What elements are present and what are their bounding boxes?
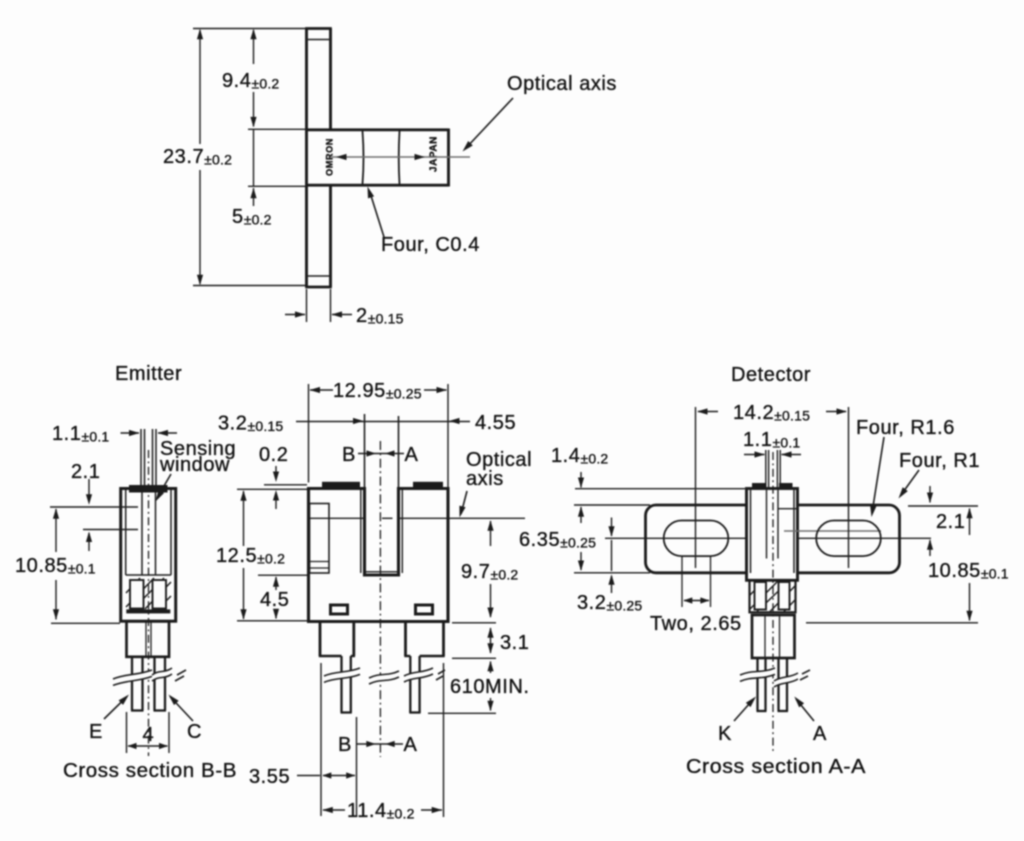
hole centre vertical line (right) (848, 407, 850, 568)
svg-text:9.7±0.2: 9.7±0.2 (461, 561, 518, 583)
svg-text:Four, C0.4: Four, C0.4 (381, 234, 480, 256)
svg-text:2.1: 2.1 (936, 511, 965, 533)
svg-text:Emitter: Emitter (115, 363, 182, 385)
svg-text:3.2±0.15: 3.2±0.15 (218, 413, 283, 435)
svg-text:3.55: 3.55 (249, 766, 290, 788)
hole centre vertical line (left) (695, 407, 697, 568)
svg-text:3.2±0.25: 3.2±0.25 (577, 592, 642, 614)
front view: two slot-shaped holes near bottom (331, 605, 433, 614)
svg-text:Cross section A-A: Cross section A-A (686, 756, 866, 778)
svg-text:23.7±0.2: 23.7±0.2 (163, 146, 232, 168)
svg-text:B: B (338, 734, 352, 756)
dimension 3.2±0.15 and 4.55 (slot position) (218, 412, 516, 435)
label C with leader (169, 695, 203, 744)
svg-text:A: A (813, 723, 827, 745)
emitter centre line (dash-dot) (148, 450, 150, 756)
dimension 2±0.15 (plate thickness) (285, 289, 404, 327)
right mounting prong (404, 622, 444, 656)
left mounting prong (319, 622, 355, 656)
front view: main body outline with slot (309, 482, 449, 622)
svg-text:2.1: 2.1 (71, 461, 100, 483)
dimension 3.1 (prong height) (452, 627, 529, 658)
front view lead break marks (324, 668, 445, 684)
svg-text:11.4±0.2: 11.4±0.2 (347, 800, 415, 822)
hole centre line (horizontal, through both holes) (605, 537, 931, 539)
svg-text:5±0.2: 5±0.2 (232, 206, 272, 228)
svg-text:4.55: 4.55 (475, 412, 516, 434)
optical axis line through housing (grey) (330, 154, 470, 160)
dimension 1.1±0.1 (detector window) (743, 429, 801, 458)
detector lead K (left pin) (757, 658, 767, 711)
svg-text:4.5: 4.5 (260, 589, 289, 611)
svg-text:14.2±0.15: 14.2±0.15 (733, 402, 810, 424)
svg-text:6.35±0.25: 6.35±0.25 (519, 529, 596, 551)
svg-text:Four, R1.6: Four, R1.6 (856, 417, 955, 439)
svg-text:axis: axis (466, 468, 504, 490)
side view: mounting plate (vertical bar) (305, 29, 332, 288)
svg-text:window: window (159, 454, 230, 476)
svg-text:Cross section B-B: Cross section B-B (63, 760, 237, 782)
front view lead A (right pin) (409, 656, 420, 713)
section labels B and A (top) with arrows (342, 414, 419, 488)
dimension 1.1±0.1 (emitter window width) (52, 423, 177, 445)
svg-text:3.1: 3.1 (500, 632, 529, 654)
svg-text:4: 4 (143, 724, 155, 746)
label: Four, C0.4 with leader arrow (368, 187, 480, 257)
grey optical axis reference line (784, 530, 881, 532)
side view: sensor housing protrusion (306, 129, 449, 187)
emitter body outline (121, 485, 176, 621)
emitter lead E (left pin) (131, 657, 144, 711)
left oblong mounting hole (664, 521, 729, 557)
svg-text:JAPAN: JAPAN (429, 136, 440, 172)
svg-text:1.4±0.2: 1.4±0.2 (551, 445, 608, 467)
dimension 2.1 (emitter optical axis offset) (71, 461, 100, 551)
detector body (vertical, in front of plate) (747, 483, 799, 580)
dimension 9.4±0.2 (222, 29, 306, 130)
dimension 14.2±0.15 (hole spacing) (697, 402, 847, 424)
svg-text:9.4±0.2: 9.4±0.2 (222, 70, 279, 92)
svg-text:Four, R1: Four, R1 (899, 450, 980, 472)
svg-text:E: E (89, 721, 103, 743)
dimension 10.85±0.1 (detector height) (806, 506, 1009, 623)
label: Four, R1.6 with leader (856, 417, 955, 517)
detector lead break marks (740, 668, 810, 687)
section labels B and A (bottom) with arrows (338, 734, 418, 756)
label: Optical axis (top) with leader arrow (463, 73, 617, 152)
dimension 12.5±0.2 (body height) (216, 489, 307, 621)
dimension 3.55 (249, 663, 357, 816)
emitter base block (127, 621, 170, 657)
emitter lead wires above body (141, 429, 156, 488)
svg-text:0.2: 0.2 (259, 444, 288, 466)
label A with leader (794, 697, 827, 746)
dimension 9.7±0.2 (452, 520, 518, 623)
label K with leader (718, 697, 756, 746)
front view: emitter element seen inside body (310, 504, 330, 574)
detector base block (752, 615, 795, 658)
dimension 4 (lead span) (127, 712, 170, 753)
emitter lens lower reference line (83, 529, 138, 531)
svg-text:K: K (718, 723, 732, 745)
dimension 23.7±0.2 (plate height) (163, 29, 306, 286)
front view: optical axis horizontal line (307, 517, 525, 519)
label: Four, R1 with leader (899, 450, 981, 499)
detector lead-frame hatched section (750, 580, 796, 612)
right oblong mounting hole (816, 521, 881, 557)
front view: centre line A/B (dash-dot vertical) (379, 441, 381, 757)
svg-text:12.5±0.2: 12.5±0.2 (216, 545, 285, 567)
emitter lead-frame hatched section (126, 578, 171, 613)
svg-text:C: C (187, 721, 202, 743)
dimension 0.2 (top step) (259, 444, 307, 509)
detector lead A (right pin) (778, 658, 789, 711)
svg-text:A: A (404, 734, 418, 756)
emitter optical axis reference line (50, 506, 138, 508)
svg-text:10.85±0.1: 10.85±0.1 (15, 555, 96, 577)
svg-text:Optical axis: Optical axis (507, 73, 617, 95)
svg-text:2±0.15: 2±0.15 (356, 305, 404, 327)
svg-text:1.1±0.1: 1.1±0.1 (743, 429, 800, 451)
dimension 10.85±0.1 (emitter height) (15, 508, 120, 623)
label: Sensing window with leader arrow (156, 438, 237, 502)
dimension 610MIN. (lead length) (428, 661, 529, 714)
svg-text:10.85±0.1: 10.85±0.1 (928, 560, 1009, 582)
front view lead B (left pin) (341, 656, 352, 713)
dimension 3.2±0.25 (axis to plate bottom) (577, 518, 642, 615)
dimension 1.4±0.2 (body above plate) (551, 445, 745, 523)
dimension 11.4±0.2 (prong outer span) (322, 663, 443, 822)
svg-text:Detector: Detector (731, 364, 811, 386)
emitter lead C (right pin) (154, 657, 167, 711)
emitter lead break marks (113, 668, 186, 685)
svg-text:A: A (405, 444, 419, 466)
detector mounting plate with rounded corners (646, 505, 900, 573)
svg-text:610MIN.: 610MIN. (450, 676, 529, 698)
dimension 6.35±0.25 (plate height) (519, 529, 650, 573)
dimension 2.1 (plate top to axis) (927, 486, 966, 556)
svg-text:12.95±0.25: 12.95±0.25 (333, 380, 422, 402)
detector centre line (dash-dot) (772, 452, 774, 752)
svg-text:B: B (342, 444, 356, 466)
dimension Two, 2.65 (hole slot width) (650, 556, 742, 635)
label E with leader (89, 695, 129, 744)
detector lead wires above body (766, 450, 780, 488)
dimension 4.5 (below slot) (258, 575, 307, 619)
dimension 5±0.2 (232, 130, 306, 229)
svg-text:1.1±0.1: 1.1±0.1 (52, 423, 109, 445)
label: Optical axis (front view) with leader (459, 449, 532, 518)
svg-text:Two, 2.65: Two, 2.65 (650, 613, 742, 635)
dimension 12.95±0.25 (body width) (309, 380, 449, 487)
